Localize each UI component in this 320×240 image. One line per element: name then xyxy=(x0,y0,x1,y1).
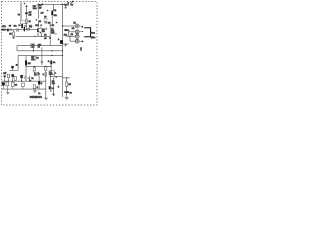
top right decoupling cap C2 xyxy=(62,3,64,5)
comp marks top xyxy=(50,24,52,27)
wire x39 xyxy=(38,76,40,81)
transistor marks xyxy=(28,78,31,81)
wire xyxy=(66,93,68,97)
rail B xyxy=(18,54,62,56)
transistor T1 xyxy=(37,28,41,34)
caps bottom left xyxy=(2,82,5,85)
junction node xyxy=(66,77,67,78)
junction node xyxy=(62,4,64,6)
wire xyxy=(25,65,27,81)
transistor T3 xyxy=(33,71,36,74)
dark diode xyxy=(4,75,6,77)
wire xyxy=(50,15,52,36)
wire xyxy=(66,78,68,82)
comp x34 xyxy=(33,85,35,89)
wire xyxy=(63,43,69,45)
resistor R5 xyxy=(13,32,15,36)
wire xyxy=(26,23,28,30)
comp marks xyxy=(55,33,57,34)
wire xyxy=(38,84,40,89)
wire corner down xyxy=(16,46,18,51)
plus terminal xyxy=(81,26,83,28)
resistor R1 (dark) xyxy=(25,12,27,14)
dark comp xyxy=(11,66,14,68)
wire feedback xyxy=(17,45,63,47)
resistor R11 xyxy=(45,67,47,71)
junction node xyxy=(38,4,39,5)
comp marks on wire xyxy=(24,76,26,78)
wire xyxy=(29,76,31,81)
svg-text:9-84: 9-84 xyxy=(37,95,43,99)
junction node xyxy=(33,50,34,51)
wire xyxy=(13,36,15,37)
resistor R12 xyxy=(66,82,68,86)
microphone (dark) xyxy=(1,29,4,31)
boxed label E xyxy=(49,71,54,75)
arrow down xyxy=(53,93,55,96)
electrolytic cap dark xyxy=(64,91,69,93)
dark comp xyxy=(12,74,14,77)
ground left xyxy=(6,89,9,94)
wire xyxy=(11,68,13,70)
dark fuse xyxy=(38,81,40,84)
comp below x21 xyxy=(22,83,25,87)
wire rail B to R8 xyxy=(25,55,27,60)
diode D1 xyxy=(36,19,38,21)
wire x53.6 xyxy=(53,77,55,93)
boxed label xyxy=(44,18,47,21)
junction node xyxy=(21,81,22,82)
wire xyxy=(26,14,28,19)
long input wire top-left xyxy=(20,2,22,21)
comp on x21 above xyxy=(20,75,23,78)
wire box to rail xyxy=(32,48,34,51)
small marks below xyxy=(50,90,52,91)
junction node xyxy=(62,55,63,56)
pot wiper xyxy=(16,64,18,66)
svg-text:Batt: Batt xyxy=(91,32,95,35)
series electrolytic plate xyxy=(24,27,25,31)
lower right: wire y77.9 xyxy=(63,77,71,79)
dark resistor above xyxy=(50,61,52,65)
wire vertical from rail to R3 xyxy=(53,4,55,10)
svg-text:9V=: 9V= xyxy=(91,36,96,39)
ground xyxy=(44,98,48,100)
junction node xyxy=(51,50,52,51)
connector K1 xyxy=(75,24,79,28)
wire xyxy=(38,21,40,28)
wire xyxy=(65,6,67,8)
connector K3 xyxy=(75,34,79,38)
ground xyxy=(12,37,15,39)
bold figure 1 xyxy=(21,24,23,28)
junction node xyxy=(41,36,42,37)
mid rail wire xyxy=(16,35,51,37)
transistor T5 marks xyxy=(54,75,57,78)
battery bracket xyxy=(84,28,90,37)
wire corner down left bus xyxy=(17,55,19,70)
wire xyxy=(49,75,51,86)
top supply rail wire xyxy=(37,3,63,5)
wire xyxy=(66,86,68,91)
small box terminal xyxy=(20,21,26,24)
series resistor R4 xyxy=(27,28,30,30)
long vertical bus right xyxy=(62,4,64,97)
cap C6 on vertical xyxy=(41,61,43,63)
resistor R3 (dark) xyxy=(51,11,53,16)
wire xyxy=(33,66,35,67)
junction node xyxy=(29,81,30,82)
junction node xyxy=(50,76,51,77)
boxed label above R4 xyxy=(29,25,32,28)
boxed label B xyxy=(31,44,35,48)
wire xyxy=(50,75,62,77)
wire bottom left xyxy=(10,69,19,71)
wire xyxy=(50,64,52,71)
wires down to rail xyxy=(5,77,13,81)
ground xyxy=(64,7,67,8)
transistor T2 dark xyxy=(49,37,51,39)
dark box on bus xyxy=(60,40,63,44)
comp marks xyxy=(46,28,47,31)
wire lower mid rail xyxy=(26,65,51,67)
minus terminal xyxy=(81,31,83,33)
series cap xyxy=(4,29,5,31)
page dashed border xyxy=(2,2,98,106)
ground xyxy=(65,97,69,99)
wire xyxy=(38,4,40,18)
series cap 2 xyxy=(17,29,18,32)
plus terminal 2 xyxy=(81,40,83,42)
dark comp xyxy=(7,29,9,32)
battery arrow symbol xyxy=(70,1,73,4)
boxed ref label C1 xyxy=(33,5,37,9)
output circles wires xyxy=(63,25,76,27)
boxed label C5 xyxy=(31,56,36,60)
rail bottom xyxy=(2,88,47,90)
junction node xyxy=(34,66,35,67)
ground mid xyxy=(33,90,37,92)
wire xyxy=(26,8,28,12)
junction node xyxy=(51,55,52,56)
junction node xyxy=(50,66,51,67)
wire down to R5 xyxy=(13,30,15,32)
stub wires to terminals xyxy=(79,26,81,41)
wire xyxy=(45,70,47,98)
vertical x46 xyxy=(45,65,47,67)
boxed label D xyxy=(34,72,39,76)
resistor R8 (dark) xyxy=(25,60,27,65)
text cluster with dark bit xyxy=(65,29,67,31)
dark bar xyxy=(49,86,51,89)
comp marks xyxy=(10,29,12,31)
resistor R2 xyxy=(26,19,28,23)
connector K4 xyxy=(75,39,79,43)
resistor R9 xyxy=(33,67,35,71)
junction node xyxy=(45,66,46,67)
emitter resistor marks xyxy=(37,34,39,36)
wire xyxy=(22,87,24,90)
dark marks xyxy=(44,21,47,24)
svg-text:1W: 1W xyxy=(29,14,32,16)
rail y81 xyxy=(2,80,47,82)
input wire xyxy=(2,29,38,31)
rail A xyxy=(17,50,63,52)
resistor R10 xyxy=(7,74,9,77)
junction node xyxy=(34,36,35,37)
wire emitter to rail xyxy=(40,33,42,36)
connector K2 xyxy=(75,30,79,34)
wire xyxy=(49,40,51,46)
comp box xyxy=(14,76,16,80)
junction node xyxy=(62,50,63,51)
supply + terminal symbol xyxy=(25,5,28,9)
wire xyxy=(21,78,23,81)
